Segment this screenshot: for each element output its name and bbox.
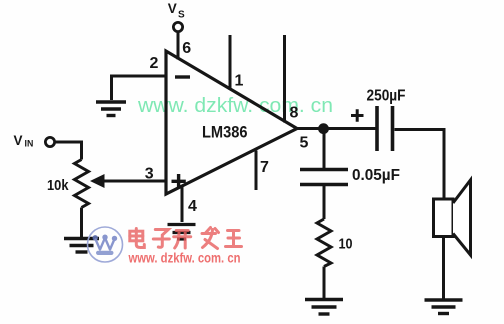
- resistor R2 10 zigzag: [317, 219, 331, 267]
- svg-text:2: 2: [150, 55, 159, 72]
- terminal VS circle: [173, 22, 182, 31]
- ground G1 (pin2): [96, 102, 126, 116]
- svg-text:V: V: [168, 1, 177, 16]
- wire R2 to ground: [323, 267, 326, 300]
- op-amp label LM386: [202, 123, 248, 142]
- watermark chinese char zi: [153, 230, 169, 248]
- wire node to C2: [323, 131, 326, 168]
- speaker LS1 body: [434, 180, 471, 255]
- wire pin2 to ground: [112, 76, 168, 100]
- wire VIN to pot top: [55, 142, 82, 160]
- svg-text:LM386: LM386: [202, 123, 248, 142]
- svg-text:V: V: [14, 133, 23, 148]
- wire pin7 stub: [255, 151, 258, 191]
- svg-text:7: 7: [260, 159, 269, 176]
- svg-text:3: 3: [145, 165, 154, 182]
- minus input marker: [175, 75, 190, 78]
- svg-text:250µF: 250µF: [367, 88, 406, 105]
- svg-text:10k: 10k: [47, 177, 69, 194]
- ground G5 (speaker): [425, 300, 463, 314]
- resistor R1 10k potentiometer zigzag: [75, 160, 89, 208]
- ground G4 (R2): [305, 300, 343, 315]
- ground G3 (pin4): [168, 225, 196, 240]
- watermark chinese char fa: [202, 228, 219, 249]
- pin label 3: [145, 165, 154, 182]
- wire pin8 stub: [283, 35, 286, 123]
- wire pot bottom to ground: [80, 208, 83, 238]
- wire speaker to ground: [442, 237, 445, 300]
- pin label 1: [235, 72, 244, 89]
- svg-text:10: 10: [339, 236, 353, 253]
- svg-text:S: S: [178, 9, 185, 20]
- pin label 2: [150, 55, 159, 72]
- pot wiper arrow: [90, 174, 167, 188]
- svg-text:4: 4: [188, 198, 197, 215]
- watermark chinese char dian: [130, 229, 145, 248]
- plus input marker: [172, 174, 186, 189]
- pin label 7: [260, 159, 269, 176]
- label 10k: [47, 177, 69, 194]
- pin label 5: [300, 135, 309, 152]
- label 0.05uF: [352, 167, 400, 184]
- svg-text:6: 6: [182, 40, 191, 57]
- node junction dot: [318, 123, 329, 134]
- wire pin4 to ground: [181, 187, 184, 222]
- label VIN: [14, 133, 34, 149]
- wire C1 to speaker corner: [395, 130, 445, 200]
- svg-text:IN: IN: [25, 139, 34, 149]
- svg-text:1: 1: [235, 72, 244, 89]
- capacitor C2 0.05uF plates: [300, 170, 348, 185]
- pin label 8: [290, 105, 299, 122]
- svg-text:8: 8: [290, 105, 299, 122]
- wire C2 to R2: [323, 186, 326, 219]
- watermark red url (bottom): [128, 251, 241, 266]
- label 10: [339, 236, 353, 253]
- terminal VIN circle: [45, 137, 54, 146]
- wire output from apex with node: [294, 127, 376, 130]
- svg-text:www. dzkfw. com. cn: www. dzkfw. com. cn: [128, 251, 241, 266]
- label VS: [168, 1, 185, 20]
- wire pin6 from VS: [177, 32, 180, 60]
- pin label 4: [188, 198, 197, 215]
- watermark chinese char kai: [174, 231, 191, 249]
- op-amp U1 LM386 triangle: [166, 51, 297, 194]
- pin label 6: [182, 40, 191, 57]
- svg-text:0.05µF: 0.05µF: [352, 167, 400, 184]
- label 250uF: [367, 88, 406, 105]
- wire pin1 stub: [229, 35, 232, 90]
- plus sign C1: [351, 109, 364, 122]
- watermark green url (middle): [137, 95, 333, 117]
- watermark chinese char wang: [226, 231, 242, 247]
- ground G2 (pot): [64, 239, 99, 253]
- svg-text:5: 5: [300, 135, 309, 152]
- capacitor C1 250uF plates: [377, 106, 393, 151]
- watermark logo W circle: [88, 227, 123, 262]
